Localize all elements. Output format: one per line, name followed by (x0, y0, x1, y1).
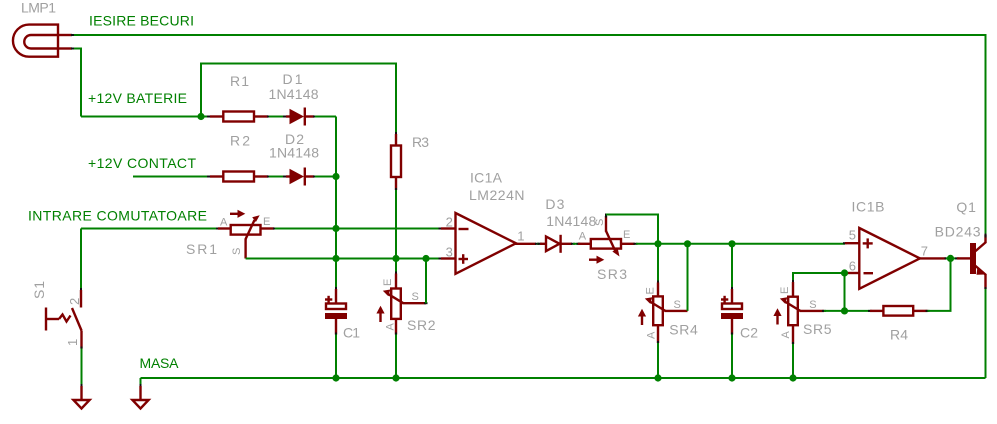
wire SR3 E to IC1B pin5 (636, 243, 845, 245)
node pin3 row at x426 (422, 255, 429, 262)
wire INTRARE row left (81, 228, 218, 230)
svg-text:S1: S1 (31, 281, 47, 299)
svg-text:S: S (594, 219, 606, 226)
svg-text:BD243: BD243 (935, 224, 981, 240)
wire R4 to pin7 node (928, 258, 951, 311)
wire SR4 S up to output row (687, 244, 689, 311)
wire pin6 node down to S/R4 row (844, 273, 846, 311)
svg-text:S: S (412, 291, 419, 303)
svg-text:S: S (809, 299, 816, 311)
svg-text:A: A (780, 331, 792, 339)
node column at pin3 row (332, 255, 339, 262)
svg-text:SR3: SR3 (597, 266, 627, 282)
svg-text:2: 2 (67, 298, 82, 305)
wire C1 to ground rail (335, 335, 337, 379)
wire pin1 to D3 (537, 243, 542, 245)
svg-text:A: A (579, 231, 587, 243)
svg-text:R1: R1 (230, 73, 249, 89)
node battery junction (197, 113, 204, 120)
wire R1 to D1 (269, 116, 286, 118)
svg-text:Q1: Q1 (956, 199, 976, 215)
trimmer SR5 (773, 280, 826, 346)
svg-text:IC1A: IC1A (470, 170, 503, 186)
svg-text:E: E (382, 279, 394, 286)
node pin7 junction (947, 255, 954, 262)
wire INTRARE column down to S1 (80, 229, 82, 291)
node rail x396 (392, 374, 399, 381)
svg-text:1N4148: 1N4148 (269, 145, 319, 161)
svg-text:R4: R4 (890, 327, 908, 343)
svg-text:A: A (646, 331, 658, 339)
svg-text:SR4: SR4 (669, 322, 698, 338)
svg-text:E: E (623, 229, 630, 241)
svg-text:R3: R3 (412, 134, 429, 150)
wire SR2 A to ground rail (395, 335, 397, 379)
svg-text:C2: C2 (740, 325, 758, 341)
node S/R4 row junction (841, 307, 848, 314)
node pin3 row at x396 (392, 255, 399, 262)
node rail x336 (332, 374, 339, 381)
trimmer SR4 (638, 244, 688, 345)
node output row x658 (654, 240, 661, 247)
switch S1 (46, 288, 82, 351)
wire SR4 A to ground rail (657, 343, 659, 378)
svg-text:7: 7 (921, 244, 928, 259)
svg-text:+12V BATERIE: +12V BATERIE (88, 90, 187, 106)
wire SR1 E to op-amp pin2 (275, 228, 441, 230)
diode D2 (283, 168, 317, 186)
wire +12V CONTACT row (133, 176, 209, 178)
capacitor C2 (721, 244, 743, 337)
svg-text:IC1B: IC1B (852, 199, 885, 215)
svg-text:LM224N: LM224N (469, 187, 525, 203)
wire diode cathode column down to C1 (335, 117, 337, 290)
svg-text:INTRARE COMUTATOARE: INTRARE COMUTATOARE (28, 208, 207, 224)
node output row x687.5 (684, 240, 691, 247)
svg-text:E: E (779, 287, 791, 294)
wire rail left end down (140, 378, 142, 386)
wire pin7 node to Q1 base (946, 257, 957, 259)
diode D1 (283, 108, 317, 126)
svg-text:D3: D3 (545, 196, 564, 212)
svg-text:5: 5 (849, 228, 856, 243)
resistor R3 (391, 132, 401, 192)
wire S1 to ground (81, 349, 83, 386)
op-amp IC1B (843, 228, 949, 289)
svg-text:S: S (231, 248, 243, 255)
wire R2 to D2 (269, 176, 286, 178)
trimmer SR2 (376, 272, 427, 337)
svg-text:1N4148: 1N4148 (546, 213, 596, 229)
wire SR3 S loop to output node (606, 215, 658, 244)
wire Q1 emitter to ground rail (985, 289, 987, 378)
svg-text:SR5: SR5 (803, 321, 832, 337)
wire pin6 row (793, 273, 845, 282)
node D2 cathode junction (332, 173, 339, 180)
resistor R4 (845, 306, 930, 316)
svg-text:LMP1: LMP1 (21, 0, 56, 16)
wire D1 cathode to node column (315, 116, 336, 118)
svg-text:2: 2 (446, 215, 453, 230)
svg-text:R2: R2 (230, 133, 250, 149)
svg-text:+12V CONTACT: +12V CONTACT (88, 155, 196, 171)
node rail x793 (789, 374, 796, 381)
op-amp IC1A (439, 213, 540, 274)
ground under S1 (73, 384, 89, 409)
node output row x732 (728, 240, 735, 247)
wire SR2 S up to pin3 row (425, 259, 427, 304)
lamp LMP1 (13, 25, 75, 57)
wire D2 cathode to node column (315, 176, 336, 178)
ground under MASA rail (132, 384, 148, 409)
diode D3 (538, 235, 576, 253)
wire R3 bottom to pin3 row and SR2 (395, 190, 397, 275)
svg-text:3: 3 (446, 245, 453, 260)
svg-text:C1: C1 (343, 325, 360, 341)
resistor R1 (207, 112, 271, 122)
svg-text:6: 6 (849, 259, 856, 274)
wire C2 to ground rail (731, 335, 733, 379)
wire battery node up and over to R3 (201, 64, 396, 135)
svg-text:1: 1 (65, 339, 80, 346)
svg-text:E: E (263, 216, 270, 228)
wire IESIRE BECURI (lamp to transistor collector) (74, 35, 986, 235)
svg-text:D1: D1 (283, 71, 303, 87)
svg-text:1: 1 (517, 229, 524, 244)
resistor R2 (207, 172, 271, 182)
trimmer SR1 (216, 210, 277, 259)
wire MASA ground rail (141, 377, 986, 379)
node rail x732 (728, 374, 735, 381)
transistor Q1 (955, 234, 986, 292)
svg-text:1N4148: 1N4148 (269, 86, 319, 102)
wire pin3 row (246, 258, 441, 260)
trimmer SR3 (577, 214, 638, 264)
capacitor C1 (325, 287, 347, 337)
svg-text:MASA: MASA (140, 355, 180, 371)
wire D3 to SR3 (573, 243, 580, 245)
wire lamp bottom to +12V BATERIE rail (74, 49, 81, 117)
node rail x658 (654, 374, 661, 381)
svg-text:SR2: SR2 (407, 317, 436, 333)
svg-text:A: A (220, 217, 228, 229)
node column at INTRARE row (332, 225, 339, 232)
wire SR5 A to ground rail (792, 344, 794, 378)
svg-text:SR1: SR1 (186, 241, 217, 257)
svg-text:IESIRE BECURI: IESIRE BECURI (89, 13, 194, 29)
svg-text:E: E (645, 287, 657, 294)
svg-text:A: A (385, 323, 397, 331)
svg-text:S: S (674, 299, 681, 311)
node pin6 junction (841, 269, 848, 276)
wire SR5 S to node (824, 310, 845, 312)
wire +12V BATERIE row (81, 116, 209, 118)
